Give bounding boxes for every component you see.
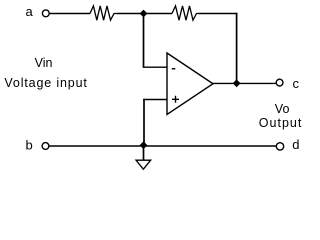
wire J1 to R2 [144, 13, 173, 15]
junction J1 [140, 10, 148, 18]
inverting input '-' label [172, 68, 176, 69]
svg-text:b: b [26, 137, 33, 152]
svg-text:d: d [292, 137, 299, 152]
wire non-inverting input down to J2 [143, 99, 145, 146]
terminal d [276, 143, 283, 150]
wire feedback down to output junction J3 [236, 13, 238, 84]
wire a to R1 [50, 13, 90, 15]
svg-text:Vo: Vo [275, 102, 290, 116]
wire b rail to terminal d [49, 145, 276, 147]
wire R1 to junction J1 [117, 13, 144, 15]
svg-text:Output: Output [259, 116, 303, 130]
svg-text:a: a [26, 4, 34, 19]
terminal b [42, 143, 49, 150]
svg-text:Vin: Vin [35, 56, 53, 70]
junction J2 [140, 141, 148, 149]
svg-text:Voltage input: Voltage input [4, 76, 87, 90]
non-inverting input '+' label [172, 96, 179, 103]
ground [136, 160, 151, 169]
terminal c [276, 79, 283, 86]
op-amp U1 [167, 53, 213, 115]
wire into inverting input [143, 66, 167, 68]
terminal a [42, 10, 49, 17]
wire R2 to feedback corner [199, 13, 238, 15]
junction J3 [233, 79, 241, 87]
wire J1 down to inverting input [143, 14, 145, 68]
wire op-amp output to terminal c [213, 82, 276, 84]
resistor R1 [90, 6, 117, 20]
wire into non-inverting input [143, 99, 166, 101]
svg-text:c: c [293, 76, 300, 91]
wire J2 to ground [143, 146, 145, 160]
resistor R2 (feedback) [172, 6, 199, 20]
